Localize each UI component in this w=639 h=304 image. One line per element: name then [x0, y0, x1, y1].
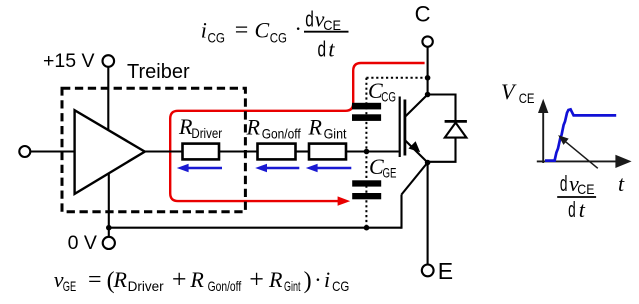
- wire input to amp: [30, 150, 74, 152]
- svg-text:Gint: Gint: [324, 126, 347, 142]
- svg-text:Driver: Driver: [128, 278, 164, 294]
- IGBT channel bar: [403, 100, 406, 156]
- red arrowhead: [338, 196, 351, 205]
- svg-text:d: d: [318, 37, 327, 62]
- op-amp driver triangle: [75, 110, 145, 194]
- wire emitter diagonal: [405, 141, 427, 163]
- svg-text:CG: CG: [270, 30, 287, 46]
- wire diagonal rail to emitter node: [402, 163, 428, 195]
- node dot: gate wire / C_GE: [364, 149, 370, 155]
- svg-text:d: d: [568, 197, 576, 222]
- node dot: rail / 0V terminal: [106, 225, 112, 231]
- svg-text:+: +: [172, 264, 187, 293]
- capacitor C_GE plates: [352, 180, 381, 186]
- wire collector to diode branch: [428, 95, 456, 122]
- wire R_Gon/off to R_Gint: [296, 150, 310, 152]
- svg-text:CG: CG: [208, 30, 226, 46]
- svg-text:R: R: [113, 267, 128, 292]
- svg-text:d: d: [560, 171, 568, 196]
- dotted line capacitor chain vertical: [365, 78, 367, 228]
- svg-text:Treiber: Treiber: [127, 61, 190, 83]
- IGBT emitter arrow: [408, 141, 420, 152]
- wire R_Driver to R_Gon/off: [219, 150, 258, 152]
- terminal circle 0V: [103, 237, 115, 249]
- node dot: rail / C_GE bottom: [364, 225, 370, 231]
- svg-text:CE: CE: [323, 17, 341, 33]
- wire 0V rail: [109, 227, 402, 229]
- svg-text:R: R: [246, 115, 261, 140]
- wire +15V supply drop: [107, 67, 109, 134]
- svg-text:t: t: [328, 37, 335, 62]
- resistor R_Driver box: [183, 144, 220, 160]
- terminal circle E: [422, 265, 434, 277]
- svg-text:CG: CG: [381, 89, 396, 105]
- svg-text:=: =: [88, 267, 102, 293]
- svg-text:i: i: [324, 267, 330, 292]
- svg-text:Driver: Driver: [191, 125, 222, 141]
- svg-text:C: C: [255, 17, 270, 42]
- diode D1 cathode bar: [445, 120, 467, 123]
- svg-text:Gon/off: Gon/off: [208, 278, 242, 294]
- svg-text:): ): [304, 268, 312, 294]
- dotted line C_CG box top: [366, 77, 427, 79]
- wire rail up: [400, 195, 402, 229]
- node dot: emitter: [425, 160, 431, 166]
- svg-text:=: =: [235, 18, 249, 44]
- svg-text:GE: GE: [383, 165, 397, 181]
- IGBT gate bar: [399, 97, 401, 158]
- wire collector diagonal: [405, 95, 427, 117]
- wire R_Gint to gate: [346, 150, 399, 152]
- svg-text:Gint: Gint: [284, 278, 301, 294]
- svg-text:C: C: [415, 2, 431, 27]
- svg-text:t: t: [618, 171, 625, 196]
- svg-text:R: R: [308, 115, 323, 140]
- Treiber dashed box: [62, 88, 245, 211]
- svg-text:d: d: [305, 7, 314, 32]
- svg-text:CE: CE: [519, 90, 535, 106]
- node dot: collector: [425, 92, 431, 98]
- svg-text:·: ·: [314, 267, 321, 292]
- wire emitter to E terminal: [427, 163, 429, 265]
- svg-text:i: i: [201, 17, 207, 42]
- svg-text:+15 V: +15 V: [43, 50, 95, 72]
- svg-text:+: +: [249, 264, 264, 293]
- blue arrow under R_Gint: [317, 167, 351, 169]
- svg-text:0 V: 0 V: [68, 232, 97, 254]
- V_CE graph: y axis: [542, 111, 544, 163]
- diode D1 triangle: [445, 123, 467, 138]
- terminal circle +15V: [103, 55, 115, 67]
- slope annotation arrow: [563, 139, 598, 168]
- svg-text:t: t: [579, 197, 586, 222]
- svg-text:CG: CG: [332, 278, 349, 294]
- wire 0V drop from amp: [108, 170, 110, 237]
- wire C terminal drop: [427, 47, 429, 94]
- V_CE curve: [545, 109, 616, 160]
- wire diode bottom branch: [428, 138, 456, 162]
- svg-text:R: R: [268, 267, 283, 292]
- node dot: dotted box top right: [425, 75, 431, 81]
- wire amp output to R_Driver: [145, 150, 183, 152]
- blue arrow under R_Driver: [188, 167, 222, 169]
- capacitor C_CG plates: [352, 103, 381, 110]
- terminal circle C: [422, 36, 432, 46]
- blue arrow under R_Gon/off: [267, 167, 300, 169]
- svg-text:R: R: [189, 267, 204, 292]
- svg-text:E: E: [438, 258, 453, 284]
- svg-text:Gon/off: Gon/off: [262, 126, 301, 142]
- svg-text:·: ·: [295, 16, 302, 41]
- red current path i_CG loop: [170, 63, 424, 201]
- terminal circle input: [19, 146, 30, 157]
- svg-text:CE: CE: [577, 181, 594, 197]
- V_CE graph: x axis: [537, 160, 617, 162]
- resistor R_Gon/off box: [258, 144, 296, 160]
- svg-text:GE: GE: [63, 278, 76, 294]
- resistor R_Gint box: [309, 144, 346, 160]
